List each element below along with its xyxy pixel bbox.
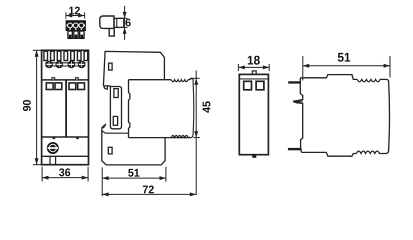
module bottom ribs <box>171 136 191 138</box>
module divider <box>65 80 67 137</box>
dim label 90 <box>23 106 31 111</box>
dim 36 line <box>42 177 88 179</box>
dim label 51 <box>338 53 344 62</box>
connector lower marks <box>69 29 71 30</box>
screw head <box>48 143 58 153</box>
dim 6 extension lines <box>119 17 128 19</box>
bracket tab inner line <box>116 18 118 27</box>
base lower line <box>42 155 89 157</box>
module bottom edge with recess <box>301 152 356 156</box>
dim label 45 <box>203 107 211 113</box>
dim 45 + 72 right line <box>195 71 197 196</box>
prong 3 <box>80 31 84 38</box>
dim 6 arrows <box>123 12 127 18</box>
connector body <box>66 20 86 31</box>
hook under upper block <box>104 86 108 89</box>
latch bump right module <box>76 78 79 80</box>
dim 18 arrows <box>238 65 244 69</box>
base top line <box>42 136 89 138</box>
module top edge with recess <box>300 75 357 80</box>
module bottom ribs <box>356 151 385 153</box>
prong 2 <box>74 31 78 38</box>
dim 51 right extension <box>165 167 167 182</box>
dim 51 extension lines <box>302 56 304 81</box>
dim 51 line <box>303 65 390 67</box>
dim label 72 <box>143 186 148 194</box>
module bottom / foot top line <box>128 137 191 139</box>
comb teeth <box>44 51 88 60</box>
module top ribs <box>171 78 193 81</box>
dim 90 extension ticks <box>33 49 42 51</box>
terminal bus bars <box>45 62 85 64</box>
dim 6 line <box>124 6 126 40</box>
dim 90 arrows <box>35 50 39 56</box>
foot hole <box>108 147 112 154</box>
dim 90 line <box>36 50 38 164</box>
front window left <box>244 81 252 90</box>
upper block bottom edge <box>103 85 110 87</box>
dim arrows 12 <box>66 14 72 18</box>
top latch bump <box>252 71 256 75</box>
clip beak <box>102 124 106 131</box>
dim 51 line <box>102 177 166 179</box>
bottom tab <box>252 155 256 158</box>
dim 36 arrows <box>42 176 48 180</box>
module top edge <box>129 79 172 81</box>
bracket hook <box>109 28 114 36</box>
module front body <box>239 74 268 154</box>
screw channel <box>49 156 51 164</box>
dim label 18 <box>248 56 253 65</box>
connector screws <box>67 23 73 29</box>
dim label 6 <box>126 19 131 27</box>
strip hole upper <box>114 89 118 98</box>
dim 51 arrows <box>303 64 309 68</box>
dim 36 extension lines <box>41 167 43 182</box>
clip ledge <box>102 131 129 134</box>
upper block hole <box>109 63 113 70</box>
dim 18 extension ticks <box>237 64 239 71</box>
bracket rounded body <box>100 16 114 28</box>
front body outline <box>42 50 89 164</box>
base notch right <box>76 138 79 140</box>
dim 51/72 left extension <box>101 167 103 196</box>
module windows <box>46 83 84 90</box>
bracket tab <box>114 18 124 27</box>
dim label 51 <box>128 169 133 177</box>
separator line under terminals <box>42 79 89 81</box>
strip hole lower <box>113 116 117 125</box>
dim 45 extension lines <box>190 77 200 79</box>
connector channel <box>67 24 85 26</box>
cap seam line <box>239 78 268 80</box>
module right edge arc <box>191 81 194 138</box>
upper pin <box>288 81 301 83</box>
module right edge arc <box>386 82 390 154</box>
dim label 36 <box>59 168 64 176</box>
terminal screws <box>45 61 85 69</box>
upper block outline <box>103 51 164 86</box>
foot outline <box>102 130 165 165</box>
module left edge <box>129 80 130 138</box>
din slide strip <box>110 86 121 129</box>
base notch left <box>53 138 56 140</box>
latch bump left module <box>52 78 55 80</box>
front window right <box>256 81 264 90</box>
dim 72 arrows <box>102 192 108 196</box>
module top ribs <box>357 79 388 81</box>
dim 45 arrows <box>194 78 198 84</box>
module left edge <box>293 78 303 153</box>
dim 18 line <box>238 66 269 68</box>
dim label 12 <box>69 7 74 15</box>
dim 72 line <box>102 193 196 195</box>
prong 1 <box>68 31 72 38</box>
latch wedge <box>293 100 302 104</box>
dim 51 arrows <box>102 176 108 180</box>
lower pin <box>288 148 302 150</box>
dim line 12 <box>66 12 85 18</box>
